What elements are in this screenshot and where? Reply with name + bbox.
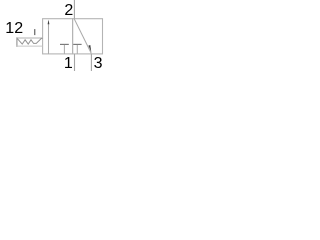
blocked port T stem in left square: [63, 45, 65, 54]
flow arrow 1->2 arrowhead: [48, 20, 50, 25]
blocked port T stem in right square: [76, 45, 78, 54]
svg-text:3: 3: [94, 55, 103, 72]
flow path 2->3 diagonal line in right square: [74, 19, 91, 54]
svg-text:2: 2: [64, 2, 73, 19]
spring return actuator top line: [16, 37, 42, 39]
spring zigzag: [17, 38, 42, 44]
valve V1 body left position square: [43, 19, 73, 54]
flow arrow 1->2 vertical line in left square: [48, 23, 50, 54]
spring return actuator left end bar: [16, 37, 18, 47]
port 2 riser line: [73, 0, 75, 19]
blocked port T bar in left square: [60, 43, 69, 45]
port 3 line: [90, 54, 92, 71]
pilot port 12 stub tick: [34, 29, 36, 35]
valve V1 body right position square: [73, 19, 103, 54]
flow path 2->3 arrowhead: [88, 45, 91, 52]
spring return actuator bottom line: [16, 45, 42, 47]
svg-text:1: 1: [64, 55, 73, 72]
port 1 line: [74, 54, 76, 71]
svg-text:12: 12: [5, 20, 23, 37]
blocked port T bar in right square: [73, 43, 81, 45]
